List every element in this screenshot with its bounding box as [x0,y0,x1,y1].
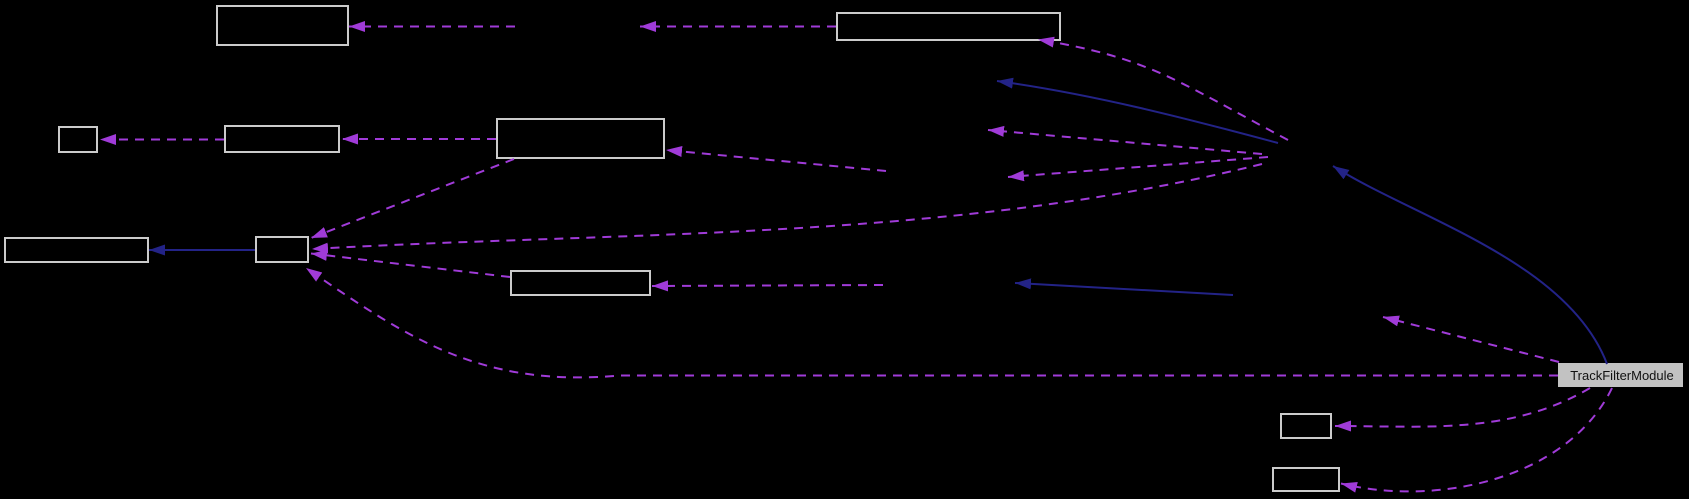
node J (small bottom-right box) [1281,414,1331,438]
edge N6 to LH (blue) [1015,283,1233,295]
node F (left box) [5,238,148,262]
edge TFM to node at 1380,318 (dashed) [1383,317,1559,362]
node B (top box) [837,13,1060,40]
edge D to C (dashed) [100,139,224,141]
edge L1 to A (dashed) [349,26,515,28]
node G (small center box) [256,237,308,262]
edge H to G (dashed) [311,254,510,278]
edge hub to L4 (dashed) [988,130,1262,154]
node K (bottom-right box) [1273,468,1339,491]
edge L5 to E (dashed) [666,150,886,171]
edge hub to L3 (blue) [997,81,1278,143]
node D [225,126,339,152]
edge TFM to K (dashed curve) [1341,388,1612,491]
edge TFM to G (long bottom dashed) [306,268,1558,377]
edge E to D (dashed) [342,138,496,140]
edge hub to L5 (dashed) [1008,157,1268,177]
node C (small left box) [59,127,97,152]
edge E to G (dashed diagonal) [311,159,514,238]
edge G to F (blue solid) [149,249,255,251]
edge LH to H (dashed) [652,285,883,286]
edge hub to G (long dashed spline) [312,164,1262,249]
edge B to L1 (dashed) [640,26,836,28]
node E [497,119,664,158]
svg-text:TrackFilterModule: TrackFilterModule [1570,368,1674,383]
edge TFM to hub (blue curve) [1333,166,1607,364]
node H [511,271,650,295]
edge hub to B (dashed curve) [1038,40,1288,141]
node A (top-left box) [217,6,348,45]
edge TFM to J (dashed curve) [1335,388,1590,427]
node TrackFilterModule [1558,363,1683,387]
